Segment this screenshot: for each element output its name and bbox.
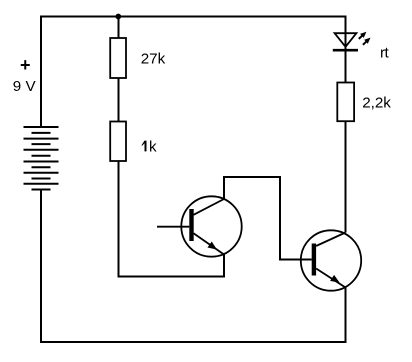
svg-text:27k: 27k — [141, 50, 166, 67]
svg-text:2,2k: 2,2k — [362, 95, 391, 112]
svg-text:rt: rt — [380, 44, 389, 61]
svg-text:k: k — [149, 138, 157, 155]
svg-text:9 V: 9 V — [13, 78, 37, 95]
svg-text:+: + — [20, 55, 31, 75]
